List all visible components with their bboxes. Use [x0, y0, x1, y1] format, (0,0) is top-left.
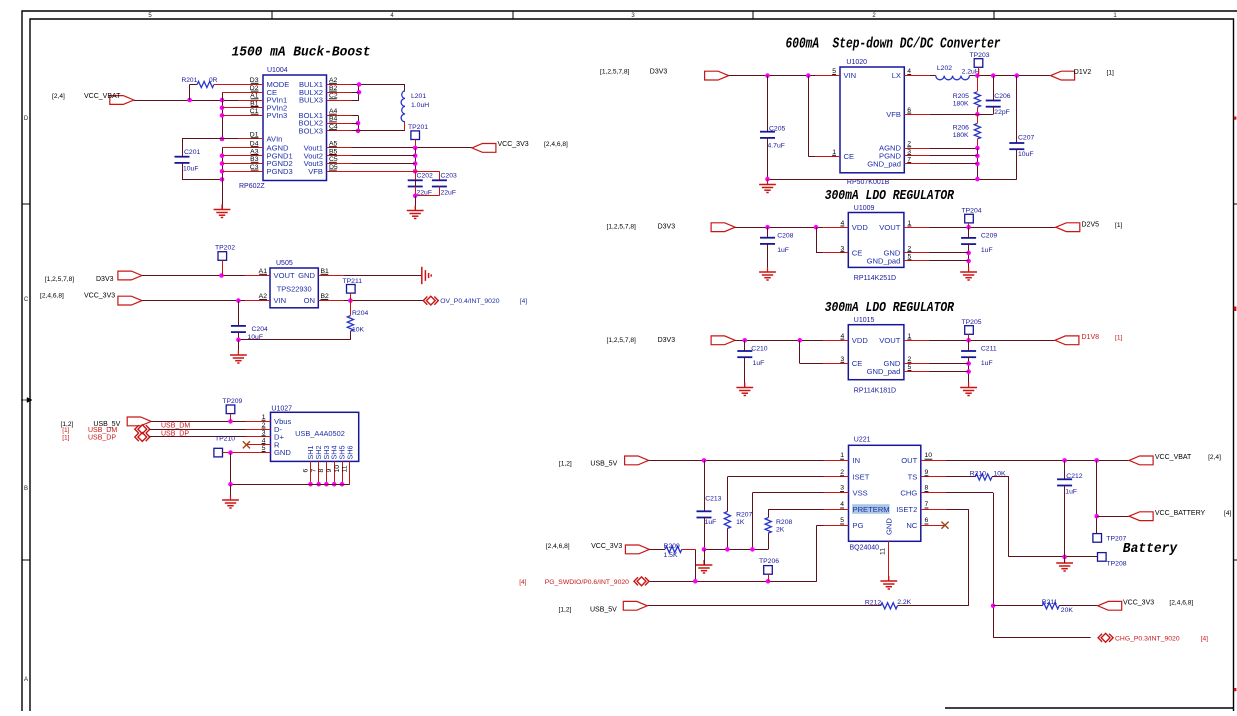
svg-text:R205: R205: [953, 93, 969, 100]
svg-text:20K: 20K: [1061, 607, 1074, 614]
ground stem U221 input: [704, 549, 706, 565]
U1009 pin 1 stub: [904, 227, 929, 229]
capacitor C211 top lead: [968, 340, 970, 351]
svg-text:C212: C212: [1066, 473, 1082, 480]
wire SH gnd bus: [231, 484, 350, 486]
junction VBAT 1: [187, 98, 192, 103]
wire ISET2 to R212: [897, 605, 968, 607]
wire AGND row: [929, 148, 977, 150]
border column tick: [993, 11, 995, 19]
junction TP211: [348, 298, 353, 303]
wire BOLX2 row: [352, 123, 359, 125]
svg-text:TP202: TP202: [215, 245, 235, 252]
svg-text:[2,4,6,8]: [2,4,6,8]: [1169, 600, 1193, 607]
junction SH3: [324, 482, 329, 487]
wire R201 left lead: [189, 85, 191, 101]
svg-text:1uF: 1uF: [753, 360, 765, 367]
U1020 pin 3 stub: [904, 155, 929, 157]
resistor R212: [881, 603, 898, 609]
U1027 pin names: [274, 417, 292, 457]
wire B1 to gnd: [343, 275, 422, 277]
testpoint TP208: [1098, 553, 1107, 562]
ground (rotated) U505: [421, 267, 423, 284]
U1020 pin names: [844, 71, 902, 168]
wire L201 bottom lead: [404, 122, 406, 131]
resistor R204: [347, 316, 353, 332]
junction SH5: [340, 482, 345, 487]
svg-text:C201: C201: [184, 149, 200, 156]
resistor R205: [974, 92, 980, 108]
svg-text:R209: R209: [664, 543, 680, 550]
svg-text:TPS22930: TPS22930: [277, 285, 312, 294]
resistor R211: [1042, 603, 1059, 609]
U505 pin B1 stub: [318, 275, 343, 277]
junction C204: [236, 298, 241, 303]
capacitor C210 bottom lead: [744, 357, 746, 387]
wire BULX1 row: [352, 84, 406, 86]
svg-text:USB_DP: USB_DP: [88, 435, 116, 442]
svg-text:CHG: CHG: [900, 488, 917, 497]
capacitor C205 top lead: [767, 76, 769, 132]
resistor R208: [765, 518, 771, 534]
U1009 pin 2 stub: [904, 252, 929, 254]
svg-text:RP507K001B: RP507K001B: [847, 179, 890, 186]
capacitor C201 bottom lead: [182, 163, 184, 180]
capacitor C207 bottom lead: [1016, 149, 1018, 179]
wire GND_pad row: [929, 163, 977, 165]
port D3V3 (U1009): [711, 223, 735, 232]
wire R206 bottom lead: [977, 139, 979, 148]
junction Vout3: [413, 161, 418, 166]
svg-text:C205: C205: [769, 126, 785, 133]
svg-text:USB_A4A0502: USB_A4A0502: [295, 429, 345, 438]
wire LX net: [969, 75, 1050, 77]
wire CE branch vertical U1015: [799, 340, 801, 363]
capacitor C202: [408, 179, 423, 181]
svg-text:CE: CE: [844, 152, 855, 161]
junction VBAT branch: [1094, 458, 1099, 463]
ground C209: [968, 267, 970, 272]
svg-text:VCC_3V3: VCC_3V3: [1123, 600, 1154, 607]
no-connect X pin NC: [941, 522, 948, 529]
junction GND_pad U1015: [966, 369, 971, 374]
capacitor C209 top lead: [968, 227, 970, 238]
wire BOLX vertical: [358, 115, 360, 130]
svg-text:OUT: OUT: [901, 456, 917, 465]
wire U1027 gnd vertical: [230, 453, 232, 485]
svg-text:[2,4]: [2,4]: [1208, 454, 1221, 461]
svg-text:C213: C213: [705, 496, 721, 503]
cut-off red mark 2: [1234, 307, 1237, 312]
U1009 pin names: [852, 223, 901, 266]
junction PGND2: [220, 161, 225, 166]
svg-text:BQ24040: BQ24040: [850, 545, 880, 552]
svg-text:U221: U221: [854, 437, 871, 444]
svg-text:11: 11: [342, 465, 349, 472]
wire U1020 gnd bus: [768, 179, 1017, 181]
resistor R201: [197, 81, 214, 87]
svg-text:TP208: TP208: [1107, 561, 1127, 568]
svg-text:GND_pad: GND_pad: [867, 367, 901, 376]
wire R201 to lead: [190, 84, 198, 86]
junction TP205: [966, 338, 971, 343]
svg-text:R204: R204: [352, 310, 368, 317]
svg-text:Battery: Battery: [1123, 541, 1178, 557]
capacitor C202 top lead: [415, 171, 417, 180]
svg-text:22pF: 22pF: [994, 109, 1010, 116]
capacitor C213 top lead: [704, 460, 706, 511]
regulator U1009 body: [848, 213, 904, 268]
wire R210 to corner: [992, 476, 1009, 478]
cut-off red mark 3: [1234, 688, 1237, 691]
wire ISET row: [727, 476, 823, 478]
ground U221 input: [703, 560, 705, 565]
svg-text:GND_pad: GND_pad: [867, 159, 901, 168]
U1015 pin 1 stub: [904, 340, 929, 342]
svg-text:9: 9: [326, 469, 333, 473]
svg-text:VIN: VIN: [274, 296, 287, 305]
svg-text:[1,2,5,7,8]: [1,2,5,7,8]: [45, 276, 74, 283]
offpage PG_SWDIO/P0.6/INT_9020: [634, 577, 649, 586]
svg-text:[2,4,6,8]: [2,4,6,8]: [40, 293, 64, 300]
junction C208: [765, 225, 770, 230]
svg-text:8: 8: [318, 469, 325, 473]
U1015 pin 4 stub: [823, 340, 848, 342]
wire TS to R210: [946, 476, 975, 478]
svg-text:U1027: U1027: [271, 406, 292, 413]
svg-text:10uF: 10uF: [183, 166, 199, 173]
wire gnd bus U221: [704, 549, 768, 551]
U1004 pin B1 stub: [238, 107, 263, 109]
junction TP209: [228, 419, 233, 424]
svg-text:11: 11: [880, 548, 887, 555]
svg-text:10uF: 10uF: [1018, 151, 1034, 158]
svg-text:1500 mA Buck-Boost: 1500 mA Buck-Boost: [232, 45, 371, 61]
inductor L201: [401, 91, 405, 122]
testpoint TP204: [965, 214, 974, 223]
svg-text:C206: C206: [994, 93, 1010, 100]
U1027 pin 2 stub: [246, 429, 271, 431]
U1004 pin C1 stub: [238, 115, 263, 117]
junction CE branch U1020: [806, 73, 811, 78]
svg-text:IN: IN: [853, 456, 861, 465]
junction R209 PG: [693, 579, 698, 584]
wire CE vertical bus: [222, 92, 224, 139]
wire CHG row: [946, 492, 993, 494]
capacitor C204: [231, 325, 246, 327]
wire GND_pad row U1015: [929, 371, 969, 373]
wire TP210 to GND pin: [223, 452, 246, 454]
border column tick: [512, 11, 514, 19]
svg-text:1.5K: 1.5K: [664, 552, 678, 559]
U221 pin 8 stub: [921, 492, 946, 494]
junction C207 top: [1015, 73, 1020, 78]
svg-text:LX: LX: [892, 71, 901, 80]
U221 pin 9 stub: [921, 476, 946, 478]
capacitor C210: [737, 350, 752, 352]
wire BULX vertical: [358, 85, 360, 101]
U1004 pin A5 stub: [327, 147, 352, 149]
U1009 pin 3 stub: [823, 252, 848, 254]
wire VOUT net U1015: [929, 340, 1055, 342]
wire Vout1 row: [352, 147, 472, 149]
ground C210: [744, 383, 746, 388]
svg-text:VIN: VIN: [844, 71, 857, 80]
svg-text:[1,2]: [1,2]: [559, 460, 572, 467]
junction C201 gnd: [220, 177, 225, 182]
wire Vout bus vertical: [415, 148, 417, 196]
regulator U1020 body: [840, 67, 904, 173]
U1004 pin D5 stub: [327, 171, 352, 173]
svg-text:VCC_3V3: VCC_3V3: [591, 543, 622, 550]
border row tick left: [22, 559, 30, 561]
ground U221: [888, 576, 890, 581]
svg-text:1uF: 1uF: [705, 519, 717, 526]
capacitor C203 bottom lead: [439, 186, 441, 196]
ground C202: [414, 206, 416, 211]
svg-text:SH6: SH6: [345, 446, 354, 460]
wire VCC_BATTERY row: [1097, 516, 1129, 518]
wire ISET vertical: [727, 477, 729, 512]
wire VCC_BATTERY vertical: [1096, 460, 1098, 533]
capacitor C212 bottom lead: [1064, 485, 1066, 557]
svg-text:U1004: U1004: [267, 67, 288, 74]
U505 pin A2 stub: [245, 300, 270, 302]
wire VSS row: [752, 492, 823, 494]
wire B2 net: [343, 300, 423, 302]
wire D3V3 to A1: [142, 275, 245, 277]
no-connect X pin R: [243, 441, 250, 448]
svg-text:1uF: 1uF: [981, 360, 993, 367]
U1004 pin B4 stub: [327, 123, 352, 125]
svg-text:TP203: TP203: [970, 52, 990, 59]
svg-text:D3V3: D3V3: [658, 337, 676, 344]
svg-text:OV_P0.4/INT_9020: OV_P0.4/INT_9020: [440, 298, 500, 305]
wire GND_pad row U1009: [929, 260, 969, 262]
U1020 pin 1 stub: [815, 156, 840, 158]
svg-text:ISET: ISET: [853, 473, 870, 482]
U1004 pin C5 stub: [327, 163, 352, 165]
ground C205: [767, 180, 769, 185]
wire PGND3 row: [222, 171, 238, 173]
capacitor C211: [961, 350, 976, 352]
R207 bottom lead: [727, 529, 729, 550]
U1015 pin 5 stub: [904, 371, 929, 373]
PRETERM highlight: [852, 504, 890, 514]
wire R204 top lead: [350, 301, 352, 316]
svg-text:[1,2,5,7,8]: [1,2,5,7,8]: [600, 69, 629, 76]
wire BOLX3 row: [352, 130, 406, 132]
svg-text:22uF: 22uF: [441, 190, 457, 197]
svg-text:R211: R211: [1042, 599, 1058, 606]
testpoint TP211: [347, 285, 356, 294]
capacitor C212: [1057, 478, 1072, 480]
svg-text:D2V5: D2V5: [1082, 222, 1100, 229]
svg-text:[1,2]: [1,2]: [559, 606, 572, 613]
ground U1004: [221, 205, 223, 210]
U1004 pin C3 stub: [238, 171, 263, 173]
border column tick: [752, 11, 754, 19]
capacitor C204 bottom lead: [238, 332, 240, 340]
wire R212 to USB_5V port: [647, 605, 880, 607]
U505 pin A1 stub: [245, 275, 270, 277]
junction GND U1027: [228, 450, 233, 455]
svg-text:VCC_VBAT: VCC_VBAT: [1155, 454, 1192, 461]
wire TP203 lead: [978, 67, 980, 75]
junction GND_pad: [975, 162, 980, 167]
junction C205: [765, 73, 770, 78]
wire U1020 gnd vertical: [977, 148, 979, 179]
wire PG row: [817, 525, 824, 527]
svg-text:C208: C208: [777, 233, 793, 240]
junction BOLX3: [356, 129, 361, 134]
junction VBAT 2: [220, 98, 225, 103]
svg-text:[1]: [1]: [1115, 335, 1122, 342]
port D1V2: [1051, 71, 1075, 80]
svg-text:VDD: VDD: [852, 336, 869, 345]
junction GND U1015: [966, 361, 971, 366]
wire ISET2 vertical: [968, 509, 970, 606]
wire R205 bottom lead: [977, 108, 979, 115]
resistor R207: [724, 512, 730, 529]
testpoint TP207: [1093, 534, 1102, 543]
U221 pin 6 stub: [921, 525, 946, 527]
R208 top lead: [768, 509, 770, 517]
ground C204: [237, 350, 239, 355]
junction VFB: [975, 112, 980, 117]
op-amp U1004 body: [263, 75, 327, 181]
wire TP201 lead: [415, 140, 417, 148]
wire PRETERM row: [768, 509, 823, 511]
svg-text:[4]: [4]: [1201, 635, 1208, 642]
wire PGND row: [929, 155, 977, 157]
svg-text:4: 4: [840, 501, 844, 508]
junction BULX2: [357, 90, 362, 95]
port D1V8: [1055, 336, 1079, 345]
svg-text:1.0uH: 1.0uH: [411, 102, 429, 109]
svg-text:1uF: 1uF: [1065, 489, 1077, 496]
svg-text:GND: GND: [298, 271, 315, 280]
U221 pin 5 stub: [824, 525, 849, 527]
junction gnd bus R207: [725, 547, 730, 552]
svg-text:R207: R207: [736, 512, 752, 519]
port D2V5: [1056, 223, 1080, 232]
inductor L202: [936, 76, 970, 80]
capacitor C208 top lead: [767, 227, 769, 238]
port VCC_3V3 (R211): [1098, 601, 1122, 610]
svg-text:D3V3: D3V3: [658, 224, 676, 231]
svg-text:D3V3: D3V3: [650, 69, 668, 76]
svg-text:VSS: VSS: [853, 488, 868, 497]
svg-text:VFB: VFB: [308, 167, 323, 176]
U1009 pin 4 stub: [823, 227, 848, 229]
capacitor C208: [760, 237, 775, 239]
wire VCC_3V3 to A2: [142, 300, 245, 302]
capacitor C211 bottom lead: [968, 357, 970, 387]
junction Vout1: [413, 146, 418, 151]
testpoint TP210: [214, 448, 223, 457]
svg-text:2.2K: 2.2K: [897, 599, 911, 606]
wire USB_5V to IN: [649, 460, 824, 462]
wire TP205 lead: [968, 334, 970, 340]
wire AVIn row: [182, 138, 238, 140]
wire TP206 lead: [768, 574, 770, 581]
U1027 pin 5 stub: [246, 452, 271, 454]
svg-text:BOLX3: BOLX3: [299, 127, 323, 136]
capacitor C207: [1009, 142, 1024, 144]
svg-text:2: 2: [840, 469, 844, 476]
ground stem C212: [1064, 557, 1066, 563]
svg-text:10: 10: [334, 465, 341, 473]
svg-text:[1]: [1]: [1107, 70, 1114, 77]
junction GND U1009: [966, 251, 971, 256]
testpoint TP205: [965, 326, 974, 335]
U1004 pin D3 stub: [238, 84, 263, 86]
wire gnd stem U1004: [222, 179, 224, 209]
U221 pin 2 stub: [824, 476, 849, 478]
U1004 pin A2 stub: [327, 84, 352, 86]
U1027 pin 4 stub: [246, 444, 271, 446]
svg-text:[1,2,5,7,8]: [1,2,5,7,8]: [607, 337, 636, 344]
wire TP209 lead: [230, 414, 232, 422]
svg-text:5: 5: [840, 517, 844, 524]
junction C206 top: [991, 73, 996, 78]
U221 pin 10 stub: [921, 460, 946, 462]
wire R211 to port: [1059, 605, 1098, 607]
svg-text:C203: C203: [441, 173, 457, 180]
capacitor C204 top lead: [238, 301, 240, 327]
U221 pin 3 stub: [824, 492, 849, 494]
junction TP204: [966, 225, 971, 230]
wire CE branch horiz U1020: [808, 156, 815, 158]
capacitor C203: [432, 179, 447, 181]
U1004 pin B2 stub: [327, 92, 352, 94]
junction PVIn2: [220, 105, 225, 110]
svg-text:R210: R210: [970, 471, 986, 478]
usb protection U1027 body: [271, 412, 359, 461]
svg-text:C211: C211: [981, 346, 997, 353]
border row tick right: [1234, 559, 1237, 561]
svg-text:PVIn3: PVIn3: [267, 111, 288, 120]
wire USB_DM to D-: [149, 429, 245, 431]
svg-text:R201: R201: [182, 77, 198, 84]
svg-text:U505: U505: [276, 260, 293, 267]
U1004 pin A1 stub: [238, 100, 263, 102]
border row tick left: [22, 203, 30, 205]
U1004 pin B5 stub: [327, 155, 352, 157]
wire LX to L202: [929, 75, 936, 77]
junction gnd bus VSS: [750, 547, 755, 552]
svg-text:PG: PG: [853, 521, 864, 530]
svg-text:180K: 180K: [953, 132, 969, 139]
wire PG_SWDIO row: [649, 581, 816, 583]
svg-text:VFB: VFB: [886, 110, 901, 119]
wire BULX3 row: [352, 100, 360, 102]
capacitor C206 bottom lead: [993, 106, 995, 114]
svg-text:R208: R208: [776, 519, 792, 526]
U221 GND pin 11 lead: [888, 541, 890, 580]
svg-text:300mA LDO REGULATOR: 300mA LDO REGULATOR: [825, 301, 955, 316]
wire USB_DP to D+: [149, 436, 245, 438]
svg-text:600mA Step-down DC/DC Convert: 600mA Step-down DC/DC Converter: [786, 36, 1001, 53]
offpage USB_DM: [135, 425, 150, 434]
svg-text:300mA LDO REGULATOR: 300mA LDO REGULATOR: [825, 189, 955, 204]
wire PGND1 row: [222, 155, 238, 157]
U1027 pin 11 stub: [349, 461, 351, 484]
svg-text:USB_5V: USB_5V: [590, 460, 617, 467]
svg-text:PRETERM: PRETERM: [853, 505, 890, 514]
svg-text:9: 9: [925, 469, 929, 476]
